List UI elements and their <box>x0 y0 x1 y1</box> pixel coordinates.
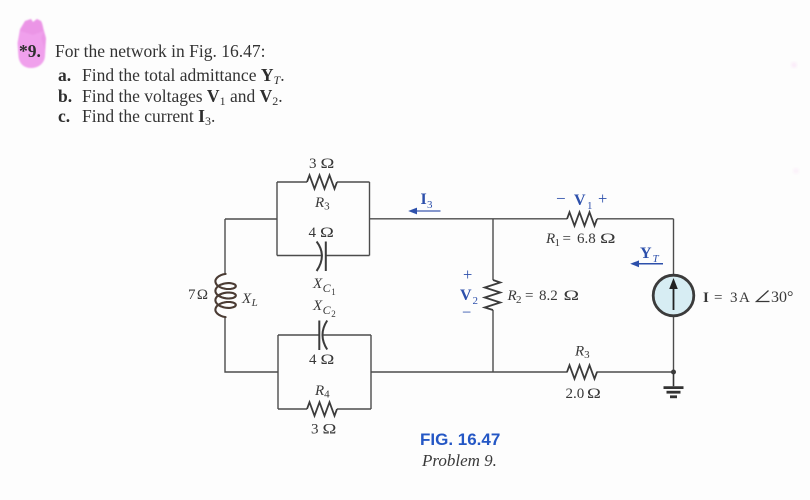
svg-text:R3: R3 <box>574 344 590 362</box>
svg-text:T: T <box>653 253 660 265</box>
svg-text:R3: R3 <box>314 195 330 213</box>
svg-text:1: 1 <box>587 200 593 212</box>
svg-text:I=3A: I=3A <box>703 290 750 306</box>
svg-text:XC2: XC2 <box>312 298 336 319</box>
svg-text:V: V <box>460 287 472 304</box>
svg-text:3: 3 <box>311 422 319 438</box>
svg-text:3: 3 <box>427 199 433 211</box>
svg-text:+: + <box>463 265 472 284</box>
svg-text:XL: XL <box>241 291 258 309</box>
svg-text:2: 2 <box>473 295 479 307</box>
svg-text:30°: 30° <box>771 289 793 306</box>
svg-text:Problem 9.: Problem 9. <box>421 451 497 470</box>
svg-text:2.0: 2.0 <box>566 386 585 402</box>
svg-text:Ω: Ω <box>323 420 337 437</box>
svg-text:Ω: Ω <box>600 230 616 246</box>
svg-text:R4: R4 <box>314 383 330 401</box>
svg-text:Y: Y <box>640 245 652 262</box>
svg-text:FIG. 16.47: FIG. 16.47 <box>420 430 500 449</box>
svg-text:I: I <box>421 191 427 208</box>
svg-text:Ω: Ω <box>564 287 580 303</box>
svg-text:V: V <box>574 192 586 209</box>
svg-text:R1=6.8: R1=6.8 <box>545 231 596 249</box>
svg-text:3: 3 <box>309 156 317 172</box>
svg-text:Ω: Ω <box>587 385 601 402</box>
svg-text:R2=8.2: R2=8.2 <box>507 288 558 306</box>
svg-text:XC1: XC1 <box>312 276 336 297</box>
svg-text:7: 7 <box>188 287 196 303</box>
svg-text:4: 4 <box>309 352 317 368</box>
svg-text:4: 4 <box>309 225 317 241</box>
svg-text:+: + <box>598 189 607 208</box>
svg-text:Ω: Ω <box>320 224 334 241</box>
svg-text:Ω: Ω <box>197 287 208 303</box>
svg-text:Ω: Ω <box>321 351 335 368</box>
svg-text:−: − <box>556 189 566 208</box>
svg-text:Ω: Ω <box>321 155 335 172</box>
svg-text:−: − <box>462 303 471 322</box>
